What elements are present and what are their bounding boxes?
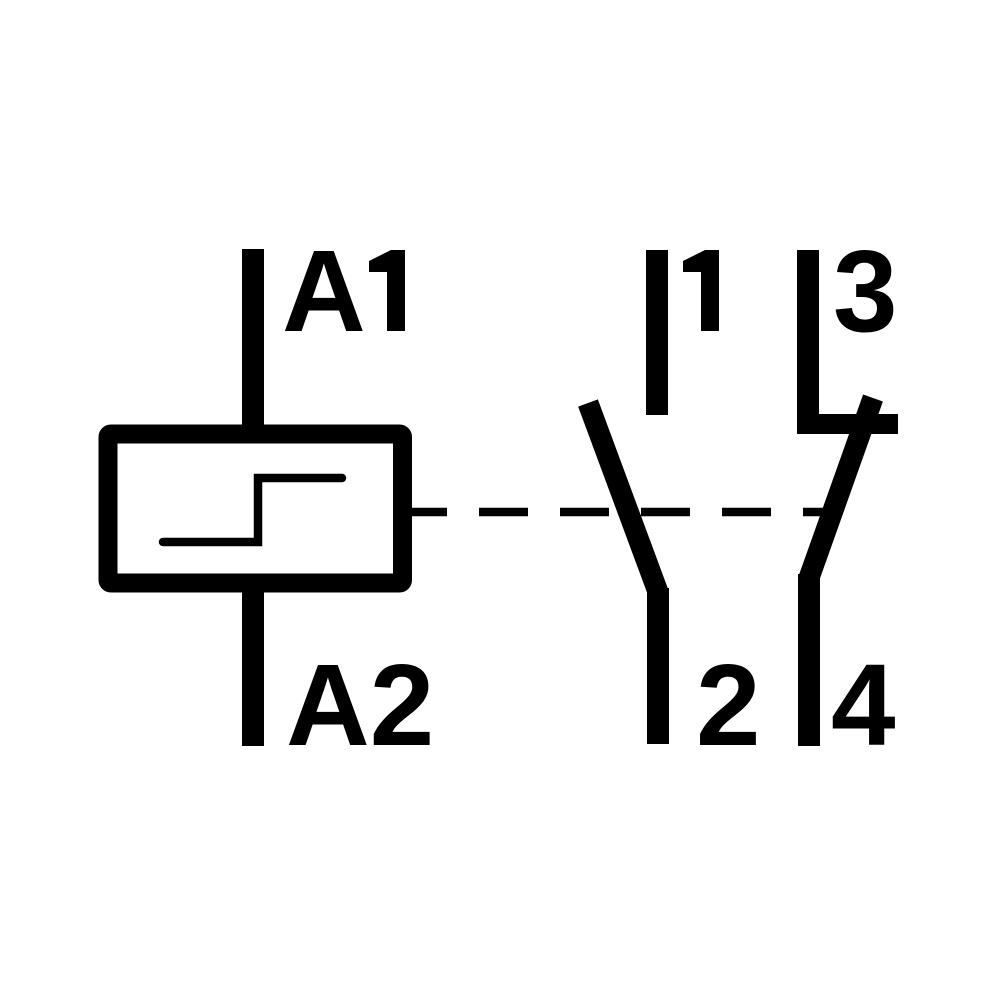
svg-text:A2: A2 <box>286 640 434 770</box>
wire pin 4 (NC contact bottom lead) <box>798 574 820 746</box>
NO contact moving arm <box>588 403 658 592</box>
svg-text:3: 3 <box>833 226 898 356</box>
NC contact seat (fixed contact bar) <box>798 414 898 434</box>
pin label 1 <box>683 250 719 331</box>
svg-text:4: 4 <box>831 640 896 770</box>
NC contact moving arm <box>809 398 873 578</box>
wire pin 1 (NO contact fixed lead) <box>646 250 668 415</box>
svg-text:A: A <box>282 226 366 356</box>
coil latching step symbol <box>163 478 342 542</box>
wire pin 3 (NC contact fixed lead) <box>797 250 819 434</box>
wire A1 (coil top lead) <box>242 249 264 434</box>
svg-text:2: 2 <box>696 640 761 770</box>
mechanical linkage (dashed line) <box>412 508 838 517</box>
wire pin 2 (NO contact bottom lead) <box>647 588 669 744</box>
wire A2 (coil bottom lead) <box>242 583 264 746</box>
terminal label A1 <box>282 226 405 356</box>
relay coil box (bistable latching coil) <box>108 434 403 583</box>
